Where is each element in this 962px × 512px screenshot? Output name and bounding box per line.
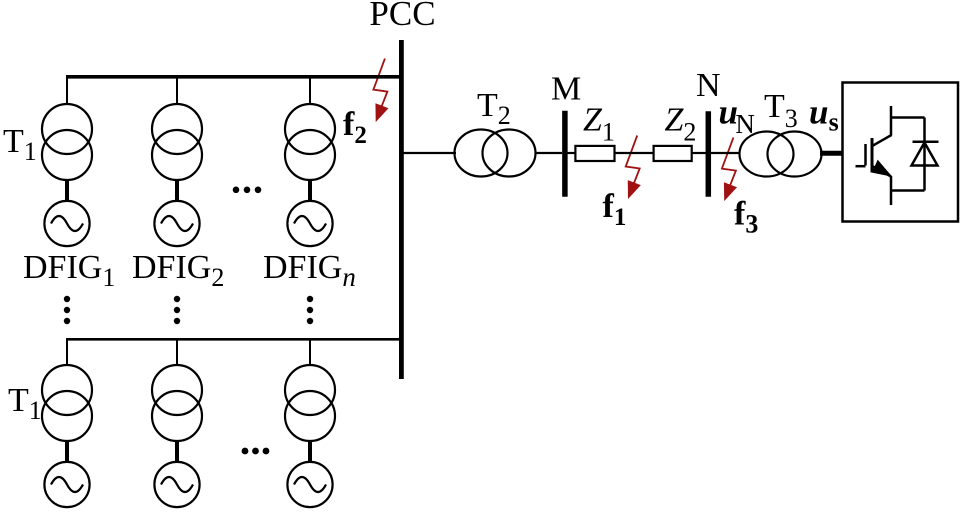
wire Z1 to Z2	[615, 152, 654, 154]
DFIG unit (bottom col 3)	[285, 339, 335, 508]
impedance Z2 (box)	[654, 146, 692, 161]
fault f3 bolt	[722, 138, 737, 202]
impedance Z1 (box)	[575, 146, 614, 161]
wire N to T3	[710, 152, 740, 154]
svg-text:f2: f2	[343, 106, 367, 149]
svg-text:N: N	[696, 67, 721, 104]
IGBT emitter arrow	[873, 161, 891, 176]
svg-text:s: s	[829, 108, 839, 137]
busbar N	[706, 111, 712, 196]
diode triangle	[912, 143, 938, 166]
wire T2 to busbar M	[536, 152, 563, 154]
IGBT bottom lead	[890, 176, 893, 205]
vertical dots column 1	[64, 296, 70, 324]
DFIGn unit	[285, 78, 335, 247]
IGBT gate lead	[856, 165, 866, 168]
svg-text:Z1: Z1	[583, 102, 615, 147]
svg-text:PCC: PCC	[369, 0, 435, 33]
wire T3 to converter (thick)	[820, 151, 843, 156]
bus PCC (vertical bar)	[399, 40, 404, 379]
svg-text:f1: f1	[603, 188, 627, 231]
fault f2 bolt	[373, 59, 388, 123]
wire: top feeder bus	[66, 75, 403, 79]
fault f1 bolt	[626, 136, 641, 200]
vertical dots column 2	[174, 296, 180, 324]
vertical dots column 3	[307, 296, 313, 324]
diode cathode bar	[913, 140, 939, 143]
transformer T3 (two windings)	[740, 132, 822, 177]
svg-text:DFIG1: DFIG1	[23, 249, 115, 292]
IGBT emitter diagonal	[872, 166, 891, 177]
svg-text:DFIGn: DFIGn	[263, 249, 356, 292]
busbar M	[562, 111, 568, 197]
svg-text:u: u	[809, 92, 828, 131]
wire Z2 to busbar N	[692, 152, 706, 154]
IGBT body bar	[871, 138, 874, 173]
svg-text:f3: f3	[734, 196, 758, 239]
transformer T2 (two windings)	[455, 130, 536, 177]
ellipsis between DFIG2 and DFIGn (top row)	[233, 187, 262, 194]
wire IGBT collector to diode cathode (top rail)	[891, 116, 925, 119]
IGBT top lead	[890, 106, 893, 136]
wire: bottom feeder bus	[66, 338, 403, 341]
ellipsis between bottom col2 and col3	[242, 448, 270, 455]
DFIG2 unit	[152, 78, 202, 247]
svg-text:M: M	[551, 71, 581, 108]
svg-text:T1: T1	[8, 382, 42, 425]
wire IGBT emitter to diode anode (bottom rail)	[891, 189, 925, 192]
svg-text:T2: T2	[477, 87, 511, 130]
DFIG unit (bottom col 1)	[42, 339, 92, 508]
wire M to Z1	[568, 152, 577, 154]
DFIG1 unit (transformer T1 + generator)	[42, 78, 92, 247]
converter box	[843, 83, 959, 222]
IGBT gate bar	[864, 144, 867, 166]
svg-text:T3: T3	[764, 88, 798, 133]
IGBT collector diagonal	[873, 135, 892, 146]
svg-text:DFIG2: DFIG2	[132, 249, 224, 292]
svg-text:Z2: Z2	[665, 102, 697, 147]
wire PCC to T2	[403, 152, 456, 154]
DFIG unit (bottom col 2)	[152, 339, 202, 508]
diode branch wire	[923, 118, 926, 191]
svg-text:T1: T1	[3, 123, 37, 166]
